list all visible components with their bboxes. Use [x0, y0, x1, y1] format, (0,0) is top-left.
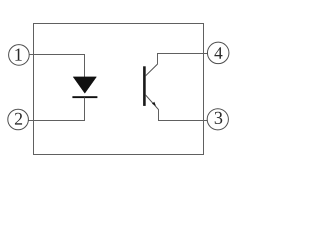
collector vertical: [157, 54, 159, 65]
LED cathode bar: [72, 96, 97, 98]
emitter arrowhead: [152, 102, 156, 106]
emitter vertical: [158, 109, 160, 120]
LED diode triangle (anode): [73, 77, 96, 93]
pin 4 circle: [207, 42, 229, 64]
pin 2 circle: [8, 109, 29, 130]
package outline box: [34, 24, 204, 155]
phototransistor base bar: [143, 66, 146, 106]
pin 1 circle: [9, 45, 30, 66]
pin 3 label: [215, 112, 223, 124]
collector diagonal: [145, 64, 157, 76]
pin 4 label: [214, 47, 222, 58]
wire cathode to pin2: [29, 120, 86, 122]
emitter diagonal: [145, 95, 158, 110]
wire anode vertical: [84, 55, 86, 78]
wire pin1 to anode corner: [29, 54, 85, 56]
pin 2 label: [15, 113, 22, 125]
pin 3 circle: [207, 109, 228, 130]
pin 1 label: [15, 48, 21, 60]
wire emitter to pin3: [158, 120, 207, 122]
wire collector to pin4: [157, 53, 208, 55]
wire cathode vertical: [84, 98, 86, 121]
